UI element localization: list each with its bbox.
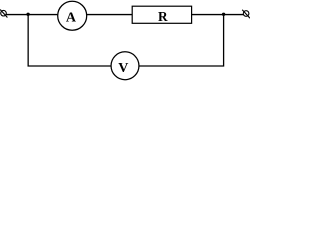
svg-text:R: R — [158, 9, 168, 24]
svg-text:V: V — [118, 61, 128, 76]
svg-text:A: A — [66, 10, 77, 25]
